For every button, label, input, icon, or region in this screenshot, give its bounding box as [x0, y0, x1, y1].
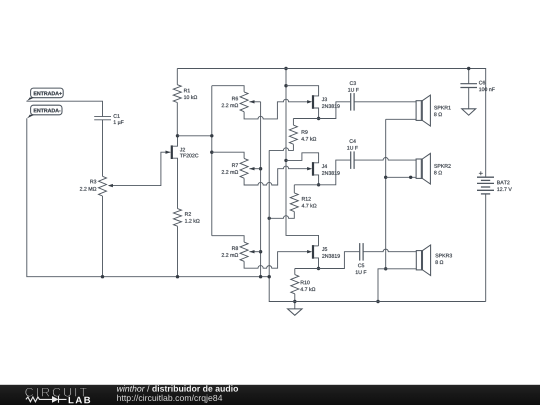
wire J4 source node: [294, 160, 350, 185]
footer bar: [0, 385, 540, 405]
junction bus-R7: [210, 151, 213, 154]
junction J4 drain T: [284, 159, 287, 162]
wire J3 source node: [293, 102, 350, 119]
CircuitLab logo: [25, 388, 87, 397]
capacitor C3: [348, 81, 416, 110]
wire speaker common: [385, 119, 387, 268]
transistor J3: [286, 86, 340, 119]
footer credit text: [117, 385, 145, 391]
pot R6 wiper arrow to J3 gate: [307, 100, 312, 103]
junction wiper-R7: [259, 167, 262, 170]
resistor R8 (pot): [212, 236, 312, 269]
junction J2 drain node: [176, 134, 179, 137]
junction J3 drain T: [284, 84, 287, 87]
junction on SPKR2 bottom wire: [409, 176, 412, 179]
node ENTRADA- flag: [26, 105, 62, 118]
junction SPKR2 bottom: [384, 176, 387, 179]
junction common at bus: [376, 300, 379, 303]
ground under R10: [288, 309, 302, 315]
capacitor C6: [460, 69, 494, 109]
resistor R2: [174, 209, 200, 277]
speaker SPKR2: [416, 153, 451, 184]
battery BAT2: [477, 171, 512, 301]
resistor R10: [291, 269, 315, 309]
junction rail-top: [284, 67, 287, 70]
wire J5 source node: [295, 252, 360, 269]
resistor R12: [269, 185, 316, 219]
wire J2 drain to bus: [178, 135, 212, 137]
wire bus x211: [211, 86, 213, 236]
junction R3 bottom: [101, 275, 104, 278]
transistor J4: [286, 153, 340, 185]
resistor R1: [173, 69, 197, 136]
speaker SPKR3: [416, 245, 452, 276]
wire SPKR2 bottom: [386, 176, 416, 178]
speaker SPKR1: [416, 95, 451, 126]
junction J4 source: [317, 183, 320, 186]
resistor R9: [269, 119, 316, 151]
junction R10 bus: [293, 300, 296, 303]
junction J3 source: [317, 117, 320, 120]
junction C6 top: [467, 67, 470, 70]
resistor R3 (pot): [80, 152, 170, 277]
junction R2 bottom: [176, 275, 179, 278]
junction SPKR3 bottom: [384, 267, 387, 270]
transistor J2: [166, 136, 199, 209]
wire SPKR1 bottom: [386, 118, 416, 120]
capacitor C5: [356, 243, 417, 274]
junction wiper-rail: [259, 275, 262, 278]
wire ENTRADA+ to C1: [26, 101, 102, 116]
capacitor C1: [94, 114, 123, 176]
ground under C6: [462, 109, 476, 115]
junction return-rail: [268, 275, 271, 278]
wire drain rail x286: [286, 69, 319, 246]
node ENTRADA+ flag: [26, 88, 63, 101]
capacitor C4: [347, 139, 416, 169]
junction wiper-R8: [259, 250, 262, 253]
wire ENTRADA- down-left rail: [27, 118, 269, 276]
wire SPKR3 bottom to bus: [378, 269, 416, 302]
junction bus-J2node: [210, 134, 213, 137]
junction J5 source: [317, 267, 320, 270]
junction R12 bottom T: [268, 217, 271, 220]
resistor R6 (pot): [212, 86, 308, 119]
wire return net x269: [269, 150, 486, 301]
wire top rail: [177, 69, 485, 178]
transistor J5: [313, 245, 340, 268]
wire wiper net: [260, 102, 262, 277]
resistor R7 (pot): [212, 152, 312, 185]
